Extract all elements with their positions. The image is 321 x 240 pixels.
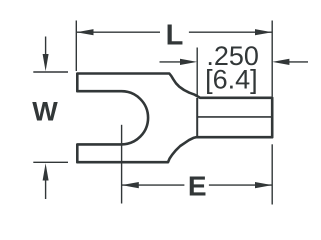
svg-text:E: E [188,170,207,201]
svg-text:[6.4]: [6.4] [205,64,258,94]
svg-text:W: W [32,97,58,127]
svg-text:L: L [166,19,184,51]
